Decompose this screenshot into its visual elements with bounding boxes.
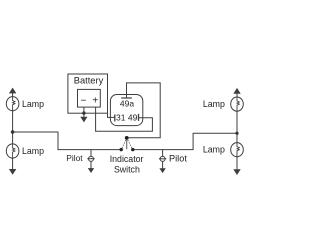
svg-text:Lamp: Lamp <box>203 99 225 109</box>
node switch pole <box>125 136 129 140</box>
lamp L1 top-left <box>6 93 19 132</box>
svg-text:Indicator: Indicator <box>110 154 144 164</box>
svg-text:31 49: 31 49 <box>116 113 138 123</box>
pilot lamp P2 right <box>159 150 166 169</box>
node left lamps junction <box>11 130 15 134</box>
node right lamps junction <box>235 132 238 135</box>
wire right lamps bus <box>134 133 237 149</box>
wire relay 49a to switch pole <box>127 83 161 138</box>
earth arrow down (L2) <box>10 170 16 174</box>
indicator switch S1 <box>121 138 132 150</box>
earth arrow down (L4) <box>234 170 240 174</box>
svg-text:Lamp: Lamp <box>22 99 44 109</box>
svg-text:+: + <box>92 95 98 106</box>
battery cell symbol <box>78 89 101 107</box>
svg-text:Lamp: Lamp <box>22 146 44 156</box>
wire battery box to relay terminal 31 <box>108 113 115 117</box>
earth arrow up (L3) <box>234 89 240 93</box>
lamp L4 bottom-right <box>231 133 244 170</box>
node switch left contact <box>120 148 123 151</box>
svg-text:Pilot: Pilot <box>169 153 187 163</box>
svg-text:49a: 49a <box>120 99 134 109</box>
battery box B1 <box>68 74 108 113</box>
earth arrow up (L1) <box>10 89 16 93</box>
earth arrow down (P1) <box>89 169 94 173</box>
node battery minus / box <box>82 111 85 114</box>
pilot lamp P1 left <box>87 150 94 169</box>
svg-text:Battery: Battery <box>74 75 104 85</box>
terminal 49 bar <box>138 114 140 121</box>
lamp L2 bottom-left <box>6 132 19 170</box>
svg-text:Pilot: Pilot <box>66 153 83 163</box>
earth arrow down (P2) <box>160 169 165 173</box>
terminal 49a bar <box>121 97 132 99</box>
svg-text:−: − <box>80 95 86 106</box>
svg-text:Switch: Switch <box>114 164 140 174</box>
flasher relay U1 <box>110 95 142 126</box>
node switch right contact <box>131 148 134 151</box>
wire battery minus to earth <box>83 107 85 118</box>
terminal 31 bar <box>114 114 116 121</box>
svg-text:Lamp: Lamp <box>203 145 225 155</box>
lamp L3 top-right <box>231 93 244 133</box>
wire left lamps bus <box>13 132 120 150</box>
wire battery plus to relay terminal 49 <box>96 107 153 131</box>
earth arrow down (battery minus) <box>81 117 86 121</box>
